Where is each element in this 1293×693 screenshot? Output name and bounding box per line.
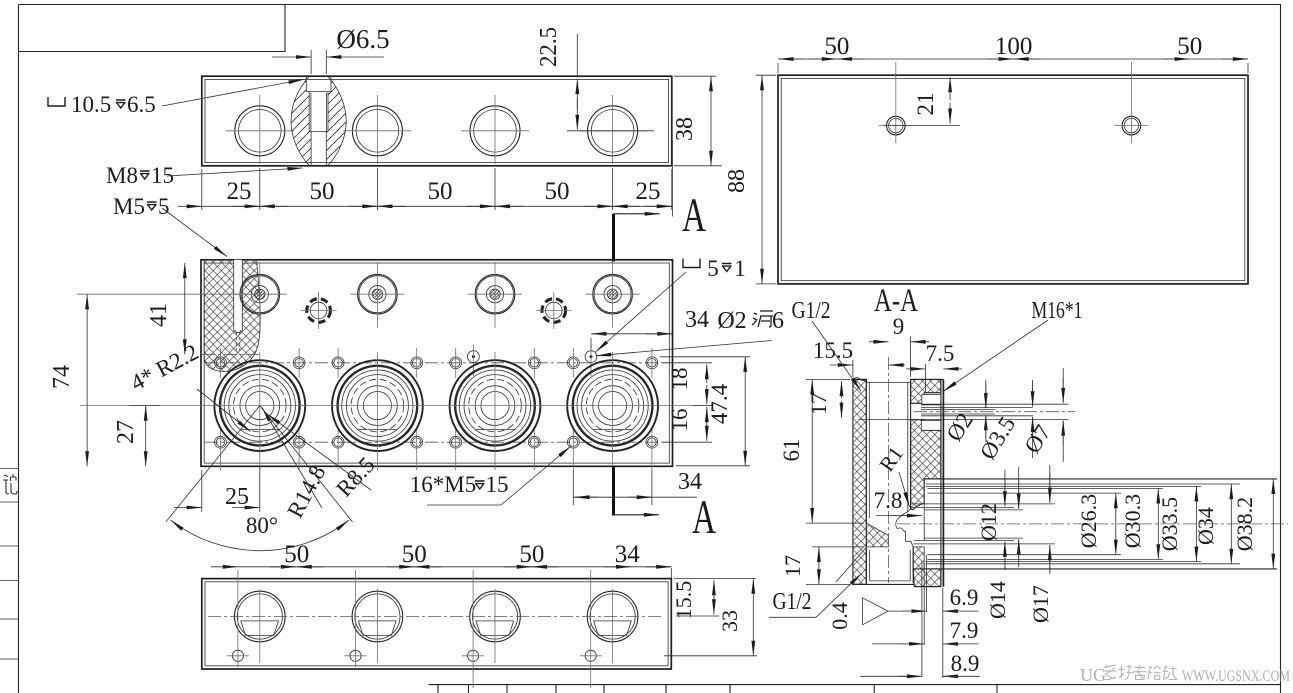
dim 9 top [910, 336, 912, 377]
svg-text:G1/2: G1/2 [773, 589, 812, 615]
A-A dim row 50-100-50 [777, 63, 779, 73]
dim 34 upper right [590, 338, 592, 349]
front view broken-out hatch region [204, 260, 260, 372]
A-A dim 21 [949, 77, 951, 100]
bore lines Dia14 [912, 506, 1015, 508]
svg-text:10.5: 10.5 [71, 92, 111, 117]
A-A plan inner edge [781, 78, 1245, 280]
svg-text:5: 5 [158, 194, 170, 219]
svg-text:100: 100 [995, 33, 1033, 60]
svg-text:15: 15 [486, 472, 509, 497]
bottom ports centerline [208, 616, 664, 618]
dim 74 left [77, 293, 245, 295]
top view broken-out section boundary [291, 68, 346, 174]
watermark UG forum [1103, 665, 1177, 680]
bottom view plate outline [202, 579, 672, 669]
front view plate inner edge [204, 263, 669, 463]
svg-text:50: 50 [284, 541, 309, 568]
A-A dim 88 [756, 74, 776, 76]
dim 27 [129, 405, 160, 407]
section left wall [853, 379, 866, 584]
top view port circles G1/2 [235, 106, 285, 156]
front view M5 bolt circles 16x [215, 357, 227, 369]
bottom small pilot holes [232, 650, 243, 661]
svg-text:1: 1 [734, 256, 746, 281]
svg-text:25: 25 [636, 178, 661, 205]
character ji in revision strip [3, 474, 17, 494]
label counterbore 5 depth 1 [683, 259, 700, 268]
section bore mouth curve [896, 509, 911, 528]
svg-text:Ø33.5: Ø33.5 [1157, 497, 1182, 551]
section line A upper [612, 214, 615, 262]
dim 15.5 section top [852, 360, 854, 377]
bottom title block table line [429, 684, 1282, 686]
svg-text:50: 50 [1177, 33, 1202, 60]
bottom view ports [234, 591, 285, 642]
svg-text:0.4: 0.4 [827, 602, 852, 630]
svg-text:50: 50 [402, 541, 427, 568]
ext line for last 25 segment [671, 140, 673, 217]
bore step verticals [923, 479, 925, 484]
top view section hatching [291, 68, 346, 174]
dim Dia3.5 [1032, 380, 1034, 406]
svg-text:18: 18 [667, 368, 692, 391]
svg-text:8.9: 8.9 [951, 651, 980, 676]
dim 17 lower left [812, 546, 864, 548]
leader M8 to section bottom [167, 168, 303, 176]
svg-text:80°: 80° [246, 513, 278, 538]
A-A plan holes [887, 116, 906, 135]
bore lines Dia38.2 [924, 478, 1277, 480]
leader counterbore to section [162, 80, 304, 107]
M16 thread relief rects [922, 395, 941, 405]
dim 61 left [806, 378, 850, 380]
svg-text:33: 33 [717, 610, 742, 632]
top-left frame box [19, 5, 286, 52]
dim Dia30.3 [1157, 488, 1159, 559]
section bore mouth bumps R1 [898, 528, 914, 547]
section band below port hatch [913, 547, 924, 569]
dim 22.5 vertical [576, 34, 578, 78]
dim 25 below valve1 [201, 470, 203, 512]
dim Dia14 [1004, 470, 1006, 506]
front view M8 counterbore circles [307, 299, 331, 323]
chamfer 0.4 symbol [863, 598, 889, 625]
svg-text:15.5: 15.5 [671, 581, 696, 620]
svg-text:6.5: 6.5 [127, 92, 156, 117]
svg-text:34: 34 [678, 469, 702, 495]
svg-text:6.9: 6.9 [950, 585, 979, 610]
svg-text:17: 17 [806, 393, 831, 415]
svg-text:Ø26.3: Ø26.3 [1076, 494, 1101, 548]
svg-text:50: 50 [310, 178, 335, 205]
small hole axis [914, 411, 1075, 413]
svg-text:41: 41 [146, 303, 172, 327]
bore lines Dia34 [926, 483, 1240, 485]
svg-text:9: 9 [893, 314, 905, 339]
dim 6.9 [921, 563, 923, 677]
svg-text:6: 6 [772, 308, 784, 334]
left revision strip rows [0, 468, 19, 470]
svg-text:34: 34 [615, 541, 641, 568]
section wall top bump [853, 378, 866, 381]
svg-text:7.9: 7.9 [950, 618, 979, 643]
bottom dim 15.5 and 33 [674, 578, 756, 580]
svg-text:A: A [682, 189, 706, 242]
dim Dia6.5 extension lines [310, 50, 312, 74]
front view tiny Dia2 holes [468, 351, 480, 363]
svg-text:A: A [692, 491, 716, 544]
section bottom faces [853, 583, 914, 585]
dim Dia38.2 [1272, 479, 1274, 569]
leader Dia2 to tiny hole [596, 341, 772, 356]
svg-text:Ø6.5: Ø6.5 [336, 24, 389, 54]
sheet border top [19, 4, 1282, 6]
svg-text:Ø14: Ø14 [985, 581, 1010, 619]
svg-text:38: 38 [672, 117, 698, 141]
dim 34 between bolt columns [572, 470, 574, 505]
A-A plan view outline [778, 75, 1248, 284]
svg-text:25: 25 [225, 484, 249, 510]
dim 7.9 [900, 643, 924, 645]
dim Dia2 [985, 380, 987, 408]
port axis centerline [888, 357, 890, 583]
front view plate outline [201, 260, 673, 467]
front view M5 top circles [240, 274, 280, 314]
svg-text:5: 5 [707, 256, 719, 281]
svg-text:22.5: 22.5 [536, 27, 562, 67]
svg-text:Ø2: Ø2 [717, 308, 746, 334]
dim Dia33.5 [1195, 486, 1197, 561]
dim Dia34 [1230, 484, 1232, 564]
svg-text:50: 50 [519, 541, 544, 568]
dim 8.9 [898, 675, 922, 677]
top view plate outline [202, 76, 672, 166]
bore lines Dia33.5 [926, 485, 1201, 487]
leader M5 to front view [162, 208, 227, 257]
sheet border right [1280, 5, 1282, 693]
dim 18 and 16 [663, 362, 712, 364]
svg-text:34: 34 [685, 307, 709, 333]
dim Dia6.5 dimension line [272, 56, 311, 58]
svg-text:47.4: 47.4 [707, 383, 732, 424]
svg-text:Ø30.3: Ø30.3 [1120, 494, 1145, 548]
dim 7.5 top [924, 364, 926, 392]
svg-text:M5: M5 [113, 194, 145, 219]
G1/2 bottom port [865, 547, 867, 583]
valve axis centerline [80, 405, 711, 407]
dim 41 [184, 263, 186, 355]
hatch slot M5 hole [234, 260, 243, 331]
svg-text:50: 50 [824, 33, 849, 60]
bore lines Dia17 [912, 503, 1056, 505]
svg-text:27: 27 [113, 420, 139, 444]
bottom dim row 50-50-50-34 [238, 566, 671, 568]
bore lines Dia30.3 [928, 487, 1164, 489]
G1/2 top port walls [865, 379, 867, 523]
dim Dia7 [1062, 368, 1064, 402]
pilot hole centerlines [237, 570, 239, 667]
svg-text:Ø17: Ø17 [1028, 585, 1053, 623]
dim Dia17 [1049, 465, 1051, 503]
svg-text:61: 61 [779, 439, 804, 462]
dim 47.4 [660, 356, 750, 358]
svg-text:WWW.UGSNX.COM: WWW.UGSNX.COM [1182, 668, 1290, 685]
section boundary dash-dot [202, 354, 260, 356]
title block column dividers [437, 685, 439, 693]
section bottom right boss [913, 569, 941, 587]
svg-text:25: 25 [227, 178, 252, 205]
section line A lower [612, 466, 615, 515]
small stepped hole lines [921, 403, 1068, 405]
dim 38 right side [674, 75, 716, 77]
svg-text:Ø34: Ø34 [1193, 507, 1218, 545]
dim Dia12 [1018, 467, 1020, 509]
svg-text:88: 88 [724, 169, 750, 193]
80 degree angular dimension [171, 520, 350, 551]
svg-text:UG: UG [1080, 665, 1106, 685]
hatch slot hidden continuation [235, 332, 237, 352]
svg-text:16: 16 [667, 409, 692, 432]
section funnel wedge [866, 523, 888, 547]
top view port centerlines [226, 130, 294, 132]
stray leader crossing 17 dim [836, 547, 867, 583]
svg-text:50: 50 [428, 178, 453, 205]
section right wall upper [911, 379, 941, 403]
M8 thread hole [309, 92, 328, 132]
bore axis centerline [897, 523, 1288, 525]
svg-text:50: 50 [545, 178, 570, 205]
Dia6.5 through hole [311, 132, 326, 166]
front view valve bores [214, 360, 305, 451]
section top faces [853, 378, 866, 380]
label counterbore 10.5 depth 6.5 [48, 97, 65, 106]
svg-text:17: 17 [780, 555, 805, 577]
dim row 25-50-50-50-25 [201, 169, 203, 210]
svg-text:Ø12: Ø12 [976, 503, 1001, 541]
label underline and leader 16xM5 [427, 504, 501, 506]
svg-text:Ø38.2: Ø38.2 [1232, 497, 1257, 551]
ext line through port for dim 17 [859, 418, 912, 420]
right face double line [940, 379, 942, 586]
section right wall mid [911, 420, 941, 510]
svg-text:M16*1: M16*1 [1032, 298, 1083, 324]
leader 4x R2.2 [197, 389, 251, 432]
counterbore hole Dia10.5 [306, 76, 331, 91]
svg-text:M8: M8 [106, 163, 138, 188]
svg-text:7.8: 7.8 [874, 488, 903, 513]
svg-text:21: 21 [913, 93, 938, 116]
svg-text:16*M5: 16*M5 [410, 472, 476, 497]
sheet border left [18, 5, 20, 693]
leader cbore5 to tiny hole [596, 272, 687, 352]
dim Dia26.3 [1115, 493, 1117, 555]
svg-text:G1/2: G1/2 [792, 298, 831, 324]
bolt row centerlines dash-dot [205, 362, 668, 364]
dim 17 upper left [841, 381, 843, 398]
bore lines Dia26.3 [928, 492, 1122, 494]
bottom view plate inner edge [205, 582, 668, 666]
svg-text:74: 74 [49, 365, 75, 389]
bore lines Dia12 [924, 509, 1023, 511]
top view plate inner edge [205, 79, 669, 162]
svg-text:7.5: 7.5 [926, 341, 955, 366]
